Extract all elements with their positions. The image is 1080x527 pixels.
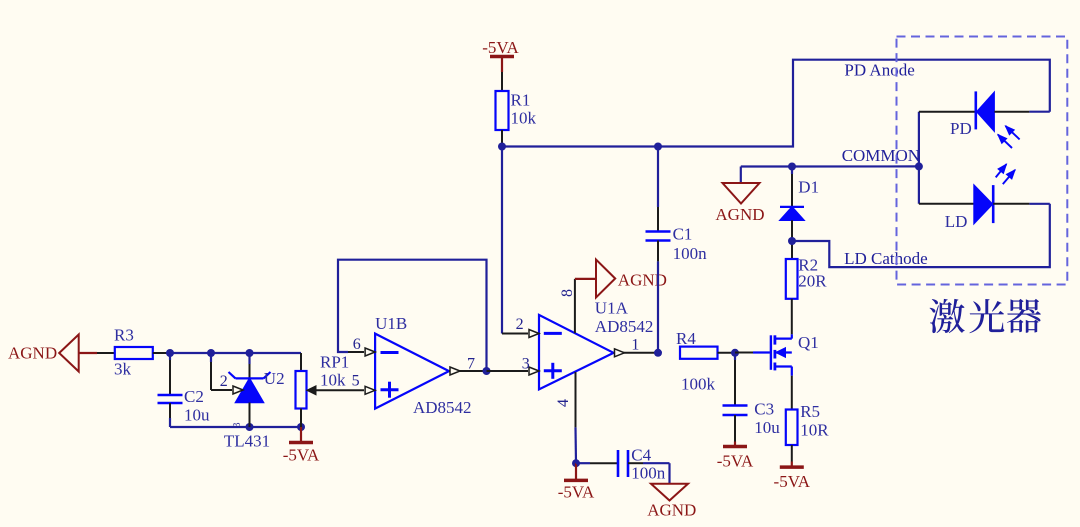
- power -5VA (RP1): [283, 427, 320, 465]
- svg-text:-5VA: -5VA: [774, 472, 811, 491]
- svg-text:AD8542: AD8542: [595, 317, 654, 336]
- wire: [575, 278, 596, 280]
- wire: [170, 426, 301, 428]
- junction: [246, 349, 254, 357]
- svg-text:7: 7: [467, 356, 475, 373]
- ground AGND (C4): [647, 484, 696, 520]
- resistor R3: [97, 326, 167, 379]
- svg-text:C3: C3: [754, 400, 774, 419]
- svg-text:20R: 20R: [798, 272, 827, 291]
- capacitor C1: [646, 147, 708, 353]
- net label LD Cathode: [844, 249, 928, 268]
- ground AGND (U1A pin 8): [596, 260, 667, 298]
- svg-text:100n: 100n: [631, 464, 666, 483]
- ground AGND (left): [8, 335, 97, 372]
- svg-text:-5VA: -5VA: [283, 446, 320, 465]
- junction: [654, 349, 662, 357]
- svg-text:6: 6: [353, 336, 361, 353]
- power -5VA (R1): [482, 38, 519, 72]
- junction: [207, 349, 215, 357]
- svg-text:100n: 100n: [673, 244, 708, 263]
- svg-text:-5VA: -5VA: [558, 482, 595, 501]
- power -5VA (U1A pin 4): [558, 463, 595, 501]
- resistor R2: [786, 241, 828, 334]
- junction: [166, 349, 174, 357]
- wire: [501, 147, 503, 334]
- svg-text:10k: 10k: [320, 371, 346, 390]
- svg-text:AD8542: AD8542: [413, 398, 472, 417]
- svg-text:TL431: TL431: [224, 432, 270, 451]
- label 激光器: [930, 299, 1041, 333]
- shunt regulator U2 TL431: [211, 353, 285, 451]
- junction: [788, 237, 796, 245]
- wire: [792, 165, 919, 167]
- svg-text:10u: 10u: [754, 418, 780, 437]
- svg-text:10k: 10k: [511, 109, 537, 128]
- junction: [654, 143, 662, 151]
- junction: [297, 423, 305, 431]
- svg-text:U2: U2: [264, 369, 285, 388]
- svg-text:R5: R5: [800, 402, 820, 421]
- resistor R4: [676, 329, 735, 394]
- junction: [788, 163, 796, 171]
- svg-text:D1: D1: [798, 177, 819, 196]
- resistor R1: [496, 72, 537, 147]
- power -5VA (R5): [774, 462, 811, 492]
- junction: [731, 349, 739, 357]
- wire: [574, 427, 577, 463]
- net label COMMON: [842, 146, 920, 165]
- junction: [483, 367, 491, 375]
- svg-text:Q1: Q1: [798, 333, 819, 352]
- op-amp U1A: [487, 279, 659, 428]
- svg-text:10R: 10R: [800, 421, 829, 440]
- svg-text:2: 2: [516, 316, 524, 333]
- svg-text:PD Anode: PD Anode: [844, 60, 914, 79]
- junction: [498, 143, 506, 151]
- svg-text:RP1: RP1: [320, 353, 349, 372]
- laser module box: [897, 37, 1068, 285]
- laser diode LD: [919, 164, 1050, 231]
- wire: [792, 204, 1050, 267]
- svg-text:3: 3: [522, 356, 530, 373]
- net label PD Anode: [844, 60, 914, 79]
- svg-text:C1: C1: [673, 225, 693, 244]
- svg-text:100k: 100k: [681, 375, 716, 394]
- wire: [502, 60, 1050, 147]
- power -5VA (C3): [717, 442, 754, 471]
- svg-text:3: 3: [232, 423, 243, 428]
- capacitor C4: [576, 446, 670, 484]
- svg-text:2: 2: [220, 373, 228, 390]
- ground AGND (COMMON): [715, 183, 764, 224]
- svg-text:-5VA: -5VA: [482, 38, 519, 57]
- wire: [918, 112, 920, 204]
- svg-text:C4: C4: [631, 446, 651, 465]
- svg-text:1: 1: [631, 337, 639, 354]
- resistor R5: [786, 376, 829, 462]
- svg-text:4: 4: [555, 399, 572, 407]
- svg-text:AGND: AGND: [647, 501, 696, 520]
- svg-text:R3: R3: [114, 326, 134, 345]
- svg-text:10u: 10u: [184, 406, 210, 425]
- wire: [741, 167, 792, 184]
- svg-text:C2: C2: [184, 387, 204, 406]
- svg-text:-5VA: -5VA: [717, 452, 754, 471]
- svg-text:AGND: AGND: [618, 271, 667, 290]
- svg-text:LD: LD: [945, 212, 968, 231]
- svg-text:U1B: U1B: [375, 314, 407, 333]
- photodiode PD: [919, 91, 1050, 148]
- svg-text:3k: 3k: [114, 360, 132, 379]
- capacitor C3: [723, 353, 781, 442]
- svg-text:AGND: AGND: [715, 205, 764, 224]
- potentiometer RP1: [296, 353, 350, 428]
- svg-text:COMMON: COMMON: [842, 146, 920, 165]
- svg-text:LD Cathode: LD Cathode: [844, 249, 928, 268]
- capacitor C2: [158, 353, 211, 427]
- svg-text:8: 8: [559, 289, 576, 297]
- svg-text:5: 5: [352, 373, 360, 390]
- svg-text:U1A: U1A: [595, 299, 629, 318]
- svg-text:AGND: AGND: [8, 344, 57, 363]
- junction: [572, 459, 580, 467]
- wire: [167, 352, 301, 354]
- transistor Q1: [735, 333, 819, 376]
- svg-text:PD: PD: [950, 119, 972, 138]
- junction: [915, 162, 923, 170]
- wire: [338, 260, 487, 371]
- svg-text:R4: R4: [676, 329, 696, 348]
- op-amp U1B: [342, 314, 487, 417]
- svg-text:R1: R1: [511, 91, 531, 110]
- junction: [246, 423, 254, 431]
- diode D1: [780, 167, 819, 242]
